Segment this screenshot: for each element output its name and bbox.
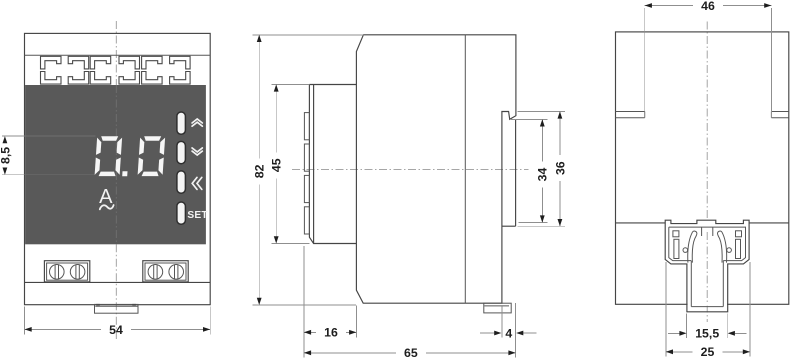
svg-text:A: A [99, 186, 113, 208]
svg-text:16: 16 [324, 326, 338, 340]
svg-text:45: 45 [270, 158, 284, 172]
svg-text:46: 46 [701, 0, 715, 13]
svg-text:65: 65 [404, 346, 418, 358]
svg-text:54: 54 [109, 323, 123, 337]
svg-text:8,5: 8,5 [0, 147, 12, 164]
svg-text:25: 25 [701, 345, 715, 358]
svg-text:15,5: 15,5 [695, 327, 719, 341]
svg-text:4: 4 [505, 326, 512, 340]
svg-text:34: 34 [536, 168, 550, 182]
svg-text:82: 82 [253, 164, 267, 178]
svg-text:36: 36 [553, 161, 567, 175]
svg-text:SET: SET [187, 210, 208, 221]
